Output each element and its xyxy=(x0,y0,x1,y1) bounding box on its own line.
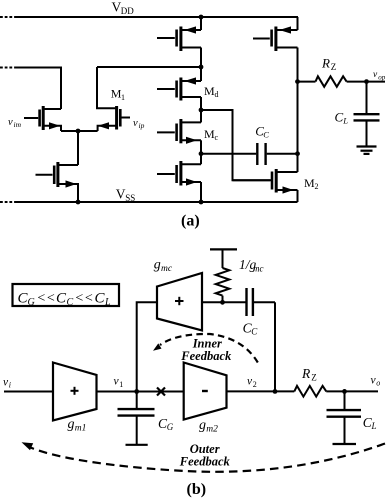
wire: right column vertical segments xyxy=(297,17,299,30)
svg-text:mc: mc xyxy=(161,264,173,274)
svg-text:v: v xyxy=(133,118,138,129)
svg-text:m2: m2 xyxy=(206,425,218,435)
svg-text:op: op xyxy=(378,73,386,81)
svg-text:C: C xyxy=(263,130,269,140)
op-amp gm1 xyxy=(53,363,97,421)
svg-text:mc: mc xyxy=(253,264,264,274)
wire: vop stub xyxy=(367,81,386,83)
wire: Md/Mc node to M2 gate xyxy=(201,110,271,180)
svg-text:Z: Z xyxy=(331,62,337,72)
svg-text:v: v xyxy=(373,70,378,80)
wire: middle column vertical segments xyxy=(200,17,202,30)
outer feedback dashed arc xyxy=(27,444,385,472)
outer feedback arrowhead xyxy=(22,442,34,450)
node: dot RZ junction xyxy=(295,79,300,84)
wire: gmc output xyxy=(202,301,246,303)
capacitor CG xyxy=(136,392,138,410)
svg-text:C: C xyxy=(335,110,344,125)
inner feedback arrowhead xyxy=(153,343,162,350)
svg-text:L: L xyxy=(104,297,111,308)
svg-text:SS: SS xyxy=(125,193,135,203)
svg-text:2: 2 xyxy=(315,182,319,191)
svg-text:L: L xyxy=(342,116,348,126)
node: tail junction dot xyxy=(76,129,81,134)
node: v1 dot xyxy=(134,389,139,394)
wire: v2 net xyxy=(227,390,295,392)
svg-text:M: M xyxy=(304,176,315,190)
svg-text:(b): (b) xyxy=(187,481,207,498)
svg-text:G: G xyxy=(167,422,174,432)
wire: tail down xyxy=(77,131,79,165)
svg-text:g: g xyxy=(199,418,206,433)
transistor: left input device (vim) xyxy=(24,106,61,131)
wire: diff pair common source xyxy=(61,130,98,132)
node: dot gmc output xyxy=(220,300,225,305)
capacitor CL (part b) xyxy=(344,391,346,410)
node: v2 dot xyxy=(273,389,278,394)
resistor 1/gmc xyxy=(210,248,237,250)
VDD rail xyxy=(0,16,15,18)
svg-text:Feedback: Feedback xyxy=(180,349,232,363)
svg-text:im: im xyxy=(14,120,22,129)
svg-text:v: v xyxy=(8,117,13,128)
svg-text:DD: DD xyxy=(121,6,134,16)
condition box xyxy=(13,284,120,306)
op-amp gm2 xyxy=(184,363,227,420)
svg-text:C: C xyxy=(251,327,258,337)
label CG << CC << CL xyxy=(18,291,112,309)
svg-text:L: L xyxy=(371,421,377,431)
svg-text:<<: << xyxy=(37,291,56,306)
plus sign in gm1 xyxy=(71,390,79,392)
node: vo dot xyxy=(342,389,347,394)
svg-text:2: 2 xyxy=(253,380,257,389)
svg-text:Z: Z xyxy=(311,373,317,383)
VSS rail xyxy=(0,201,15,203)
svg-text:ip: ip xyxy=(139,121,145,130)
resistor RZ (part b) xyxy=(294,386,326,397)
transistor M1 (right input device, vip) xyxy=(97,67,130,131)
node: dot at (201,153.7) xyxy=(199,151,204,156)
transistor: top PMOS of middle column xyxy=(157,26,201,51)
minus sign in gm2 xyxy=(202,390,208,392)
transistor Mc xyxy=(157,119,201,144)
svg-text:1: 1 xyxy=(121,93,125,102)
svg-text:1: 1 xyxy=(119,380,123,389)
capacitor CC (part b) xyxy=(245,288,247,316)
svg-text:m1: m1 xyxy=(75,424,87,434)
svg-text:R: R xyxy=(301,366,311,381)
transistor: bottom NMOS of middle column xyxy=(157,161,201,186)
wire: left load branch (dashed continuation, top of diff pair) xyxy=(0,67,15,69)
wire: vi input xyxy=(4,391,53,393)
svg-text:g: g xyxy=(68,417,75,432)
svg-text:g: g xyxy=(154,258,161,273)
wire: v1 net xyxy=(97,391,184,393)
transistor Md xyxy=(157,77,201,100)
node: dot CC junction xyxy=(295,151,300,156)
wire: M1 drain to middle column xyxy=(97,66,201,68)
svg-text:C: C xyxy=(56,291,67,307)
svg-text:(a): (a) xyxy=(181,213,200,230)
ground (part a) xyxy=(357,145,377,147)
op-amp gmc (feedback transconductor) xyxy=(157,273,202,331)
svg-text:G: G xyxy=(28,297,35,308)
svg-text:M: M xyxy=(204,84,215,98)
svg-text:R: R xyxy=(321,56,330,71)
inner feedback dashed arc xyxy=(160,334,258,363)
svg-text:M: M xyxy=(204,127,215,141)
transistor: tail current source xyxy=(36,162,79,202)
node: dot middle column on VDD xyxy=(199,15,204,20)
wire: vo stub xyxy=(345,390,379,392)
transistor: top PMOS of right column xyxy=(253,26,298,51)
resistor RZ (part a) xyxy=(298,81,316,83)
svg-text:C: C xyxy=(95,291,106,307)
svg-text:<<: << xyxy=(75,291,94,306)
capacitor CC (part a) xyxy=(201,153,256,155)
wire: gmc input from v1 xyxy=(137,302,157,391)
capacitor CL (part a) xyxy=(366,82,368,114)
node: dot at (201,110) xyxy=(199,108,204,113)
plus sign in gmc xyxy=(175,300,184,302)
transistor M2 xyxy=(233,169,298,194)
svg-text:c: c xyxy=(215,133,219,142)
svg-text:d: d xyxy=(215,90,219,99)
svg-text:o: o xyxy=(376,379,380,388)
svg-text:i: i xyxy=(9,381,11,390)
node: dot middle column on VSS xyxy=(199,200,204,205)
node: dot at (201,67) xyxy=(199,65,204,70)
svg-text:C: C xyxy=(67,297,74,308)
node: vop dot xyxy=(364,79,369,84)
X mark on v1-gm2 wire xyxy=(157,388,165,396)
svg-text:Feedback: Feedback xyxy=(179,454,231,468)
wire: CC down to v2 xyxy=(274,302,276,391)
node: tail on VSS xyxy=(76,200,81,205)
